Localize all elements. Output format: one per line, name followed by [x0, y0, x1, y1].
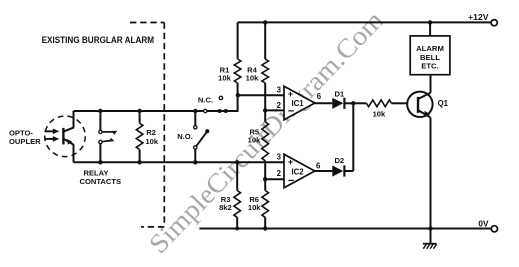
svg-text:IC1: IC1: [292, 99, 305, 108]
wire Q1 collector to alarm box: [430, 75, 432, 93]
svg-text:10k: 10k: [218, 74, 231, 83]
relay contacts: [99, 111, 117, 162]
junction N.O. top: [193, 109, 197, 113]
svg-text:D2: D2: [334, 156, 344, 165]
wire top switch loop: [74, 95, 238, 111]
resistor R5: [262, 110, 269, 179]
junction R3 top: [235, 160, 239, 164]
diode D1: [332, 98, 353, 109]
svg-text:0V: 0V: [478, 219, 489, 228]
junction R5/R6/pin2: [263, 177, 267, 181]
svg-text:OPTO-: OPTO-: [9, 128, 33, 137]
junction D1/D2: [351, 101, 355, 105]
junction R1/pin3: [236, 93, 240, 97]
svg-text:3: 3: [277, 153, 282, 162]
svg-text:R2: R2: [146, 128, 156, 137]
svg-text:ALARM: ALARM: [416, 44, 444, 53]
svg-text:+12V: +12V: [468, 12, 489, 22]
junction R2 top: [137, 109, 141, 113]
svg-text:ETC.: ETC.: [421, 61, 439, 70]
+12V terminal: [491, 20, 497, 26]
junction R6 rail: [263, 226, 267, 230]
svg-text:−: −: [288, 175, 294, 187]
wire IC1 pin3: [238, 94, 284, 96]
0V terminal: [491, 226, 497, 232]
svg-text:10k: 10k: [246, 74, 259, 83]
svg-text:10k: 10k: [373, 110, 386, 119]
junction emitter rail: [428, 226, 432, 230]
svg-text:8k2: 8k2: [219, 203, 232, 212]
svg-text:10k: 10k: [145, 137, 158, 146]
junction R3 rail: [235, 227, 239, 231]
op-amp IC2: [284, 154, 315, 188]
resistor 10k (base): [367, 100, 392, 107]
resistor R6: [262, 179, 269, 228]
svg-text:D1: D1: [334, 90, 344, 99]
svg-text:3: 3: [277, 85, 282, 94]
junction relay bottom: [98, 160, 102, 164]
diode D2: [332, 165, 353, 176]
junction alarm rail: [428, 20, 432, 24]
wire Q1 emitter to 0V: [430, 117, 432, 228]
junction R4/R5/pin2: [263, 108, 267, 112]
svg-text:N.O.: N.O.: [177, 132, 193, 141]
0V rail: [199, 228, 491, 230]
junction R4 rail: [263, 20, 267, 24]
wire resistor to Q1 base: [392, 102, 408, 104]
junction N.O. bottom: [193, 160, 197, 164]
svg-text:OUPLER: OUPLER: [9, 137, 41, 146]
+12V supply rail: [238, 21, 491, 23]
resistor R2: [136, 111, 143, 162]
dashed boundary of existing burglar alarm: [130, 23, 164, 227]
svg-text:10k: 10k: [248, 136, 261, 145]
alarm bell box: [410, 36, 450, 75]
IC1 output wire: [315, 102, 333, 104]
switch N.O.: [194, 111, 210, 162]
svg-text:+: +: [288, 89, 293, 99]
opto-coupler phototransistor: [63, 111, 74, 162]
wire D2 cathode to D1 node: [352, 103, 354, 171]
resistor R3: [234, 162, 241, 228]
svg-text:6: 6: [317, 92, 322, 101]
svg-text:6: 6: [316, 161, 321, 170]
opto-coupler dashed envelope: [45, 116, 86, 157]
svg-text:Q1: Q1: [438, 99, 449, 108]
svg-text:2: 2: [277, 101, 282, 110]
svg-text:10k: 10k: [248, 203, 261, 212]
IC2 output wire: [315, 170, 333, 172]
svg-text:IC2: IC2: [292, 167, 305, 176]
junction R2 bottom: [137, 160, 141, 164]
wire D1 node to base resistor: [353, 102, 366, 104]
op-amp IC1: [284, 86, 315, 120]
junction relay top: [98, 109, 102, 113]
svg-text:EXISTING BURGLAR ALARM: EXISTING BURGLAR ALARM: [42, 35, 155, 46]
svg-text:N.C.: N.C.: [198, 95, 213, 104]
wire bottom switch loop: [74, 161, 285, 163]
transistor Q1: [407, 92, 432, 118]
wire IC1 pin2: [265, 109, 284, 111]
svg-text:CONTACTS: CONTACTS: [79, 177, 121, 186]
svg-text:RELAY: RELAY: [83, 168, 108, 177]
switch N.C.: [204, 96, 228, 113]
opto light arrows: [45, 129, 60, 142]
wire rail to alarm box: [429, 22, 431, 36]
ground: [423, 229, 437, 249]
wire IC2 pin2: [265, 178, 284, 180]
svg-text:+: +: [288, 157, 293, 167]
resistor R1: [234, 22, 241, 95]
resistor R4: [262, 22, 269, 110]
svg-text:2: 2: [277, 169, 282, 178]
